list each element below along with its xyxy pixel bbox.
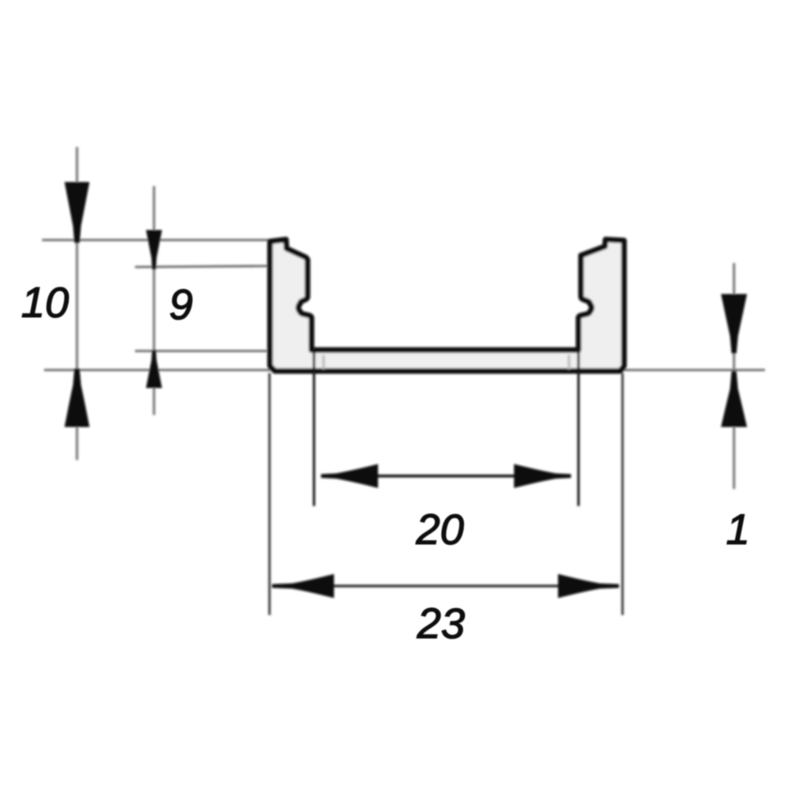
dimension 20: right arrowhead bbox=[514, 464, 571, 488]
aluminium U-profile body bbox=[270, 240, 624, 372]
dimension 20: left arrowhead bbox=[321, 464, 378, 488]
dimension 10: vertical stem bbox=[76, 147, 79, 460]
dimension 20: extension line right bbox=[577, 348, 579, 506]
dimension 1: vertical stem bbox=[733, 263, 736, 489]
dimension 1: bottom arrowhead (up) bbox=[721, 371, 747, 427]
dimension 23: extension line right bbox=[621, 373, 623, 615]
extension line step level (y=267) bbox=[135, 266, 269, 267]
svg-text:20: 20 bbox=[415, 506, 464, 554]
artifact tick right inside floor bbox=[568, 355, 571, 369]
svg-text:1: 1 bbox=[726, 506, 750, 554]
svg-text:10: 10 bbox=[21, 279, 69, 327]
extension line bottom level left (y=370) bbox=[44, 369, 270, 371]
extension line inner floor level (y=351) bbox=[135, 350, 267, 352]
dimension 20: line bbox=[330, 475, 562, 478]
dimension 10: top arrowhead (down) bbox=[65, 182, 90, 243]
svg-text:23: 23 bbox=[416, 600, 465, 648]
dimension 9: vertical stem bbox=[153, 186, 156, 415]
dimension 23: right arrowhead bbox=[558, 574, 619, 598]
dimension 10: bottom arrowhead (up) bbox=[65, 369, 90, 428]
dimension 9: top arrowhead (down) bbox=[146, 230, 162, 270]
artifact tick left inside floor bbox=[322, 355, 325, 369]
dimension 23: left arrowhead bbox=[272, 574, 334, 598]
svg-text:9: 9 bbox=[169, 281, 193, 329]
dimension 1: top arrowhead (down) bbox=[721, 294, 747, 354]
dimension 23: extension line left bbox=[268, 373, 270, 615]
dimension 9: bottom arrowhead (up) bbox=[146, 350, 162, 388]
dimension 20: extension line left bbox=[313, 348, 315, 506]
dimension 23: line bbox=[280, 585, 612, 587]
extension line bottom level right (y=370) bbox=[624, 369, 765, 371]
extension line top (profile top level, y=240) bbox=[42, 239, 269, 241]
